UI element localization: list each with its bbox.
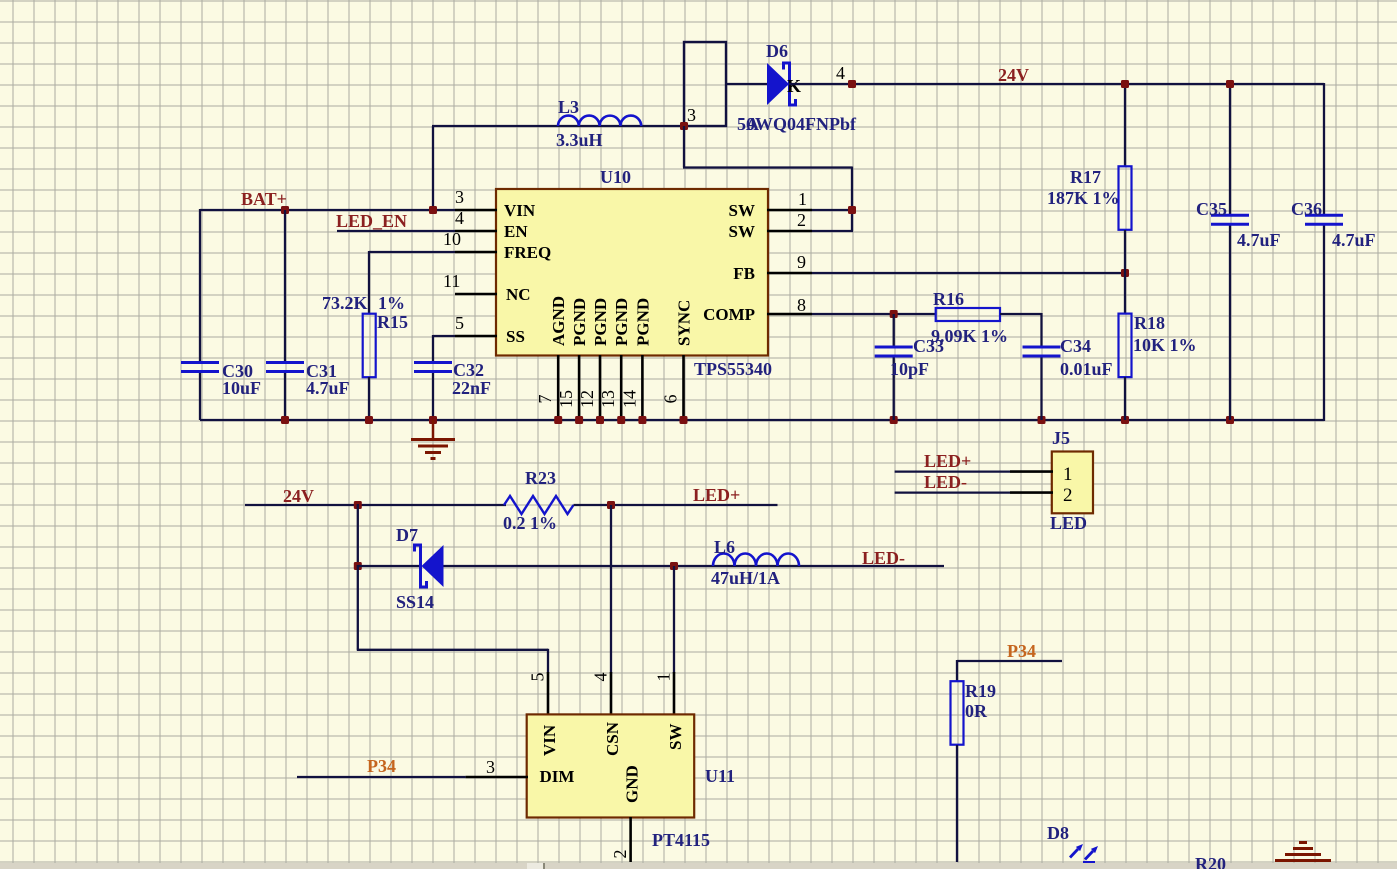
resistor R19: [951, 681, 964, 745]
pin 1 SW: [767, 209, 812, 212]
resistor R17: [1119, 166, 1132, 230]
pin 1 SW U11: [673, 672, 676, 715]
svg-text:12: 12: [577, 390, 597, 408]
svg-text:K: K: [787, 76, 801, 96]
inductor L6: [713, 554, 799, 567]
pin 3 VIN: [455, 209, 497, 212]
svg-text:U10: U10: [600, 167, 631, 187]
junction on ground rail: [1038, 416, 1046, 424]
svg-text:6: 6: [661, 395, 681, 404]
svg-text:10uF: 10uF: [222, 378, 261, 398]
svg-text:L3: L3: [558, 97, 579, 117]
pin 8 COMP: [767, 313, 812, 316]
svg-text:LED-: LED-: [924, 472, 967, 492]
node junction 24V R17: [1121, 80, 1129, 88]
node junction R23 CSN: [607, 501, 615, 509]
diode D8 clipped: [1083, 861, 1095, 864]
svg-text:EN: EN: [504, 222, 528, 241]
svg-text:4: 4: [455, 208, 464, 228]
svg-text:R17: R17: [1070, 167, 1101, 187]
wire C34 to rail: [1040, 356, 1042, 420]
svg-text:9: 9: [797, 252, 806, 272]
svg-text:LED-: LED-: [862, 548, 905, 568]
wire D7 branch to VIN U11: [357, 565, 359, 650]
pin 13 PGND: [620, 355, 623, 420]
wire C33 branch: [893, 314, 895, 347]
junction on ground rail: [890, 416, 898, 424]
wire BAT+ rail: [200, 209, 455, 211]
wire 24V to D7: [357, 504, 359, 566]
svg-text:7: 7: [535, 395, 555, 404]
svg-text:5: 5: [455, 313, 464, 333]
svg-text:0.2 1%: 0.2 1%: [503, 513, 557, 533]
svg-text:LED_EN: LED_EN: [336, 211, 407, 231]
ground rail: [200, 419, 1324, 421]
svg-text:2: 2: [1063, 485, 1073, 506]
wire SW branch: [673, 566, 675, 673]
junction on ground rail: [1226, 416, 1234, 424]
svg-text:2: 2: [610, 850, 630, 859]
connector J5 body: [1052, 452, 1093, 514]
svg-text:FREQ: FREQ: [504, 243, 551, 262]
wire R17 to FB: [1124, 230, 1126, 314]
wire box to diode D6: [726, 83, 768, 85]
capacitor C33: [875, 346, 913, 349]
wire box to SW net: [683, 126, 685, 168]
svg-text:8: 8: [797, 295, 806, 315]
svg-text:VIN: VIN: [540, 724, 559, 756]
wire C36 branch: [1323, 83, 1325, 215]
svg-text:BAT+: BAT+: [241, 189, 287, 209]
svg-text:PGND: PGND: [612, 298, 631, 346]
diode D6: [767, 63, 789, 105]
svg-text:R15: R15: [377, 312, 408, 332]
capacitor C31: [266, 361, 304, 364]
svg-text:FB: FB: [733, 264, 755, 283]
pin 7 AGND: [557, 355, 560, 420]
svg-text:C35: C35: [1196, 199, 1227, 219]
svg-text:LED: LED: [1050, 513, 1087, 533]
svg-text:4.7uF: 4.7uF: [306, 378, 350, 398]
wire R16 to C34: [1000, 313, 1042, 315]
capacitor C35: [1211, 214, 1249, 217]
svg-text:NC: NC: [506, 285, 531, 304]
wire FREQ to R15: [369, 251, 455, 253]
node junction BAT+ C31: [281, 206, 289, 214]
svg-text:D7: D7: [396, 525, 418, 545]
svg-text:187K 1%: 187K 1%: [1047, 188, 1120, 208]
node junction D7: [354, 562, 362, 570]
pin 2 GND U11: [629, 817, 632, 862]
svg-text:R20: R20: [1195, 854, 1226, 869]
svg-text:4: 4: [591, 673, 611, 682]
svg-text:73.2K: 73.2K: [322, 293, 368, 313]
pin 10 FREQ: [455, 251, 497, 254]
pin 15 PGND: [578, 355, 581, 420]
junction on ground rail: [617, 416, 625, 424]
node junction FB: [1121, 269, 1129, 277]
capacitor C32: [414, 361, 452, 364]
pin 4 CSN U11: [610, 672, 613, 715]
svg-text:SS14: SS14: [396, 592, 434, 612]
svg-text:1: 1: [1063, 464, 1073, 485]
svg-text:D8: D8: [1047, 823, 1069, 843]
inductor L3: [558, 116, 641, 126]
op-amp U10 body: [496, 189, 768, 356]
svg-text:TPS55340: TPS55340: [694, 359, 772, 379]
pin 11 NC: [455, 293, 497, 296]
svg-text:SW: SW: [666, 724, 685, 750]
svg-text:3: 3: [486, 757, 495, 777]
wire C30 branch: [199, 209, 201, 363]
svg-text:C34: C34: [1060, 336, 1091, 356]
junction on ground rail: [1121, 416, 1129, 424]
wire 24V lower rail left: [245, 504, 506, 506]
junction on ground rail: [680, 416, 688, 424]
wire SW2 to net: [812, 230, 853, 232]
svg-text:VIN: VIN: [504, 201, 536, 220]
svg-text:LED+: LED+: [693, 485, 740, 505]
svg-text:SYNC: SYNC: [675, 300, 694, 346]
scrollbar strip: [0, 863, 1397, 869]
resistor R16: [936, 308, 1000, 321]
svg-text:D6: D6: [766, 41, 788, 61]
svg-text:SS: SS: [506, 327, 525, 346]
junction on ground rail: [429, 416, 437, 424]
wire LED- stub: [895, 491, 1010, 493]
svg-text:0.01uF: 0.01uF: [1060, 359, 1113, 379]
pin 5 SS: [455, 335, 497, 338]
node junction SW: [848, 206, 856, 214]
junction on ground rail: [638, 416, 646, 424]
wire C35 branch: [1229, 84, 1231, 215]
svg-text:22nF: 22nF: [452, 378, 491, 398]
pin 4 EN: [455, 230, 497, 233]
node junction at L3/box: [680, 122, 688, 130]
pin 5 VIN U11: [547, 672, 550, 715]
pin 12 PGND: [599, 355, 602, 420]
svg-text:15: 15: [556, 390, 576, 408]
svg-text:24V: 24V: [283, 486, 314, 506]
svg-text:L6: L6: [714, 537, 735, 557]
svg-text:4: 4: [836, 63, 845, 83]
svg-text:C36: C36: [1291, 199, 1322, 219]
svg-text:J5: J5: [1052, 428, 1070, 448]
svg-text:LED+: LED+: [924, 451, 971, 471]
svg-text:PT4115: PT4115: [652, 830, 710, 850]
junction on ground rail: [575, 416, 583, 424]
svg-text:5: 5: [528, 673, 548, 682]
svg-text:R18: R18: [1134, 313, 1165, 333]
node junction 4: [848, 80, 856, 88]
pin 2 SW: [767, 230, 812, 233]
pin 9 FB: [767, 272, 812, 275]
svg-text:1: 1: [654, 673, 674, 682]
svg-text:2: 2: [797, 210, 806, 230]
svg-text:GND: GND: [623, 765, 642, 803]
junction on ground rail: [365, 416, 373, 424]
pin 6 SYNC: [682, 355, 685, 420]
pin 2 J5: [1010, 491, 1053, 494]
svg-text:1%: 1%: [378, 293, 405, 313]
ground symbol: [432, 420, 435, 439]
svg-text:C32: C32: [453, 360, 484, 380]
wire P34 to R19: [957, 660, 1062, 662]
svg-text:24V: 24V: [998, 65, 1029, 85]
junction on ground rail: [554, 416, 562, 424]
wire L3 input vertical from BAT+ rail: [432, 126, 434, 211]
diode D7: [422, 545, 444, 587]
node junction 24V C35: [1226, 80, 1234, 88]
wire R23 to LED+: [574, 504, 778, 506]
wire D7 to L6: [444, 565, 945, 567]
svg-text:U11: U11: [705, 766, 735, 786]
wire FB net: [812, 272, 1125, 274]
svg-text:3: 3: [455, 187, 464, 207]
svg-text:COMP: COMP: [703, 305, 755, 324]
pin 1 J5: [1010, 470, 1053, 473]
wire LED_EN to EN: [337, 230, 455, 232]
wire DIM to P34: [297, 776, 466, 778]
wire to D7 cathode: [358, 565, 421, 567]
node junction BAT+ VIN: [429, 206, 437, 214]
svg-text:A: A: [746, 114, 759, 134]
svg-text:R23: R23: [525, 468, 556, 488]
resistor R23 zigzag: [504, 496, 574, 514]
LED D8 arrows: [1070, 849, 1093, 860]
wire LED+ stub: [895, 470, 1010, 472]
svg-text:C33: C33: [913, 336, 944, 356]
wire R19 down: [956, 745, 958, 862]
wire SS to C32: [433, 335, 455, 337]
svg-text:P34: P34: [1007, 641, 1036, 661]
svg-text:PGND: PGND: [591, 298, 610, 346]
svg-text:11: 11: [443, 271, 460, 291]
wire 24V to R17: [1124, 84, 1126, 166]
snubber box component: [684, 42, 726, 126]
svg-text:3.3uH: 3.3uH: [556, 130, 603, 150]
capacitor C34: [1023, 346, 1061, 349]
svg-text:DIM: DIM: [540, 767, 575, 786]
node junction COMP C33: [890, 310, 898, 318]
wire SW1 to net: [812, 209, 853, 211]
svg-text:47uH/1A: 47uH/1A: [711, 568, 780, 588]
svg-text:AGND: AGND: [549, 296, 568, 346]
svg-text:13: 13: [598, 390, 618, 408]
svg-text:P34: P34: [367, 756, 396, 776]
svg-text:4.7uF: 4.7uF: [1237, 230, 1281, 250]
wire C31 branch: [284, 210, 286, 363]
svg-text:10K 1%: 10K 1%: [1133, 335, 1197, 355]
svg-text:PGND: PGND: [633, 298, 652, 346]
resistor R18: [1119, 314, 1132, 378]
svg-text:10pF: 10pF: [890, 359, 929, 379]
capacitor C30: [181, 361, 219, 364]
junction on ground rail: [281, 416, 289, 424]
svg-text:PGND: PGND: [570, 298, 589, 346]
svg-text:4.7uF: 4.7uF: [1332, 230, 1376, 250]
pin 3 DIM: [466, 776, 528, 779]
wire R18 to rail: [1124, 377, 1126, 420]
wire R15 to ground rail: [368, 377, 370, 420]
svg-text:14: 14: [619, 390, 639, 408]
svg-text:3: 3: [687, 105, 696, 125]
capacitor C36: [1305, 214, 1343, 217]
svg-text:R16: R16: [933, 289, 964, 309]
svg-text:0R: 0R: [965, 701, 988, 721]
svg-text:CSN: CSN: [603, 721, 622, 756]
wire L3 line: [432, 125, 684, 127]
svg-text:1: 1: [798, 189, 807, 209]
transistor U11 body: [527, 714, 695, 817]
ground symbol bottom right: [1299, 841, 1307, 844]
node junction 24V D7: [354, 501, 362, 509]
junction on ground rail: [596, 416, 604, 424]
wire D6 cathode to 24V rail: [789, 83, 1324, 85]
svg-text:R19: R19: [965, 681, 996, 701]
node junction L6 SW: [670, 562, 678, 570]
wire CSN branch: [610, 505, 612, 673]
svg-text:SW: SW: [729, 222, 755, 241]
resistor R15: [363, 314, 376, 378]
pin 14 PGND: [641, 355, 644, 420]
svg-text:SW: SW: [729, 201, 755, 220]
wire COMP net: [812, 313, 936, 315]
